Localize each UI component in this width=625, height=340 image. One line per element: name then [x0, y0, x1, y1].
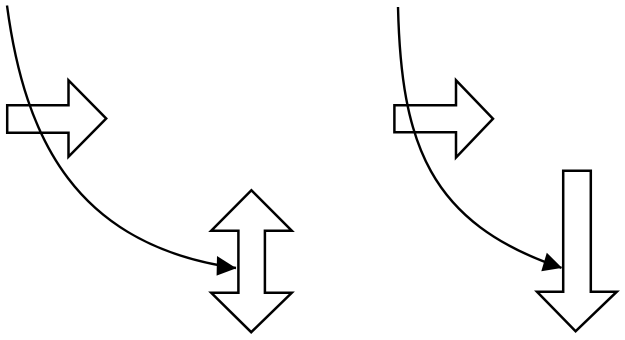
arrowhead of right curved connector: [541, 253, 562, 272]
curved connector (right group): [398, 7, 562, 268]
curved connector (left group): [7, 6, 236, 269]
block arrow up-down (left group): [211, 190, 292, 332]
arrowhead of left curved connector: [217, 256, 237, 276]
block arrow right (left group): [7, 80, 106, 156]
block arrow right (right group): [394, 80, 493, 157]
block arrow down (right group): [537, 171, 617, 332]
